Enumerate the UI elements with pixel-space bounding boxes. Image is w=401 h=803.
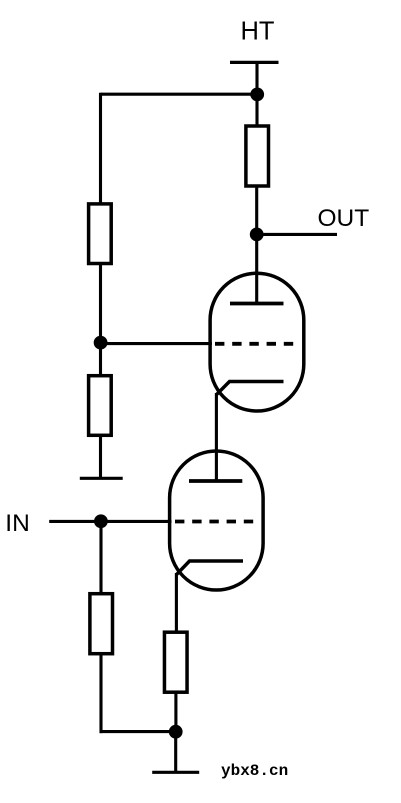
wire V1 cathode to V2 anode xyxy=(215,393,218,481)
triode V2 anode plate xyxy=(189,479,242,483)
wire left branch up to resistor R5 xyxy=(99,652,102,733)
triode V1 grid (dashed) xyxy=(215,342,293,346)
node OUT junction xyxy=(250,228,264,242)
resistor R3 xyxy=(89,376,112,436)
ground (left divider) xyxy=(80,477,123,480)
wire HT bar to resistor R2 top xyxy=(255,62,258,127)
resistor R1 xyxy=(89,204,112,264)
wire R4 bottom to ground node xyxy=(174,690,177,732)
HT supply terminal bar xyxy=(230,61,279,64)
wire R1 bottom to grid divider node xyxy=(99,262,102,344)
wire bottom return to left branch xyxy=(100,730,176,733)
wire IN terminal xyxy=(49,520,101,523)
wire R3 bottom to ground xyxy=(99,434,102,478)
wire HT junction to left branch xyxy=(101,93,258,96)
triode V1 anode plate xyxy=(230,302,284,306)
wire left branch down to resistor R1 xyxy=(99,93,102,206)
wire R2 bottom through OUT node to upper tube anode xyxy=(255,184,258,304)
triode V2 grid (dashed) xyxy=(175,520,253,524)
wire junction down to resistor R3 xyxy=(99,343,102,378)
ground (cathode return) xyxy=(152,771,199,774)
node grid divider junction xyxy=(94,336,108,350)
triode V2 cathode xyxy=(176,561,243,575)
node ground junction xyxy=(169,725,183,739)
wire V2 cathode to resistor R4 xyxy=(175,573,178,634)
wire ground node to ground symbol xyxy=(174,732,177,773)
resistor R5 grid leak xyxy=(90,594,113,654)
wire OUT stub xyxy=(257,233,337,236)
triode V1 cathode xyxy=(216,382,283,395)
wire IN junction to V2 grid xyxy=(101,520,172,523)
svg-text:OUT: OUT xyxy=(318,205,370,232)
svg-text:ybx8.cn: ybx8.cn xyxy=(221,762,288,780)
node IN junction xyxy=(94,514,108,528)
wire junction to upper tube grid xyxy=(101,342,212,345)
svg-text:HT: HT xyxy=(241,18,275,46)
triode V2 envelope xyxy=(170,451,264,590)
resistor R2 anode load xyxy=(246,126,269,186)
node HT junction xyxy=(250,88,264,102)
resistor R4 cathode bias xyxy=(164,632,187,692)
triode V1 envelope xyxy=(210,273,304,411)
wire IN node down to R5 xyxy=(99,521,102,596)
svg-text:IN: IN xyxy=(5,510,30,537)
